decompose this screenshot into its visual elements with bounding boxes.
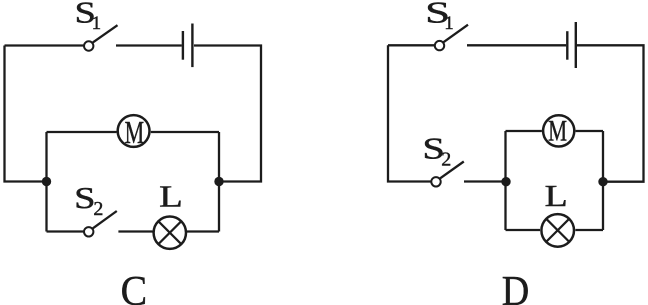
svg-text:1: 1 [444, 13, 454, 34]
svg-text:1: 1 [92, 13, 102, 34]
svg-text:D: D [502, 269, 530, 305]
svg-text:2: 2 [441, 149, 451, 171]
svg-text:M: M [125, 115, 145, 150]
svg-text:2: 2 [93, 198, 103, 220]
svg-text:L: L [159, 179, 183, 214]
svg-text:M: M [548, 115, 567, 148]
svg-text:S: S [74, 180, 95, 215]
svg-text:C: C [121, 269, 148, 305]
svg-text:L: L [545, 178, 568, 213]
